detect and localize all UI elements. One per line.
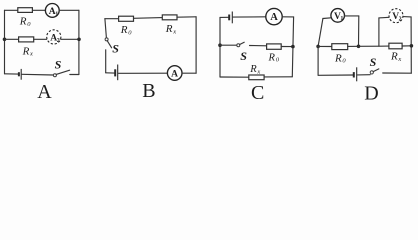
switch S (D) <box>370 71 373 74</box>
wire A top-left <box>5 9 18 11</box>
node C mid-right junction <box>291 45 295 49</box>
svg-text:R: R <box>22 46 30 58</box>
wire A bottom-right <box>70 74 79 76</box>
ammeter A (C) <box>266 8 282 24</box>
resistor R0 (C) <box>267 44 282 49</box>
resistor Rx box (C) <box>249 75 264 80</box>
wire D V2-loop top-left <box>379 16 389 19</box>
svg-text:A: A <box>171 70 178 80</box>
wire D rail-mid <box>348 45 359 47</box>
wire B left vertical lower <box>105 50 107 73</box>
svg-text:R: R <box>390 51 398 63</box>
svg-text:x: x <box>397 56 401 63</box>
resistor R0 (A, top branch) <box>18 8 33 13</box>
node C mid-left junction <box>218 43 222 47</box>
svg-text:R: R <box>334 52 342 64</box>
svg-text:R: R <box>165 23 173 35</box>
node A mid-left junction <box>3 38 7 42</box>
wire C top-right <box>282 16 293 18</box>
svg-text:x: x <box>172 28 176 35</box>
wire C bottom-right <box>264 76 292 78</box>
svg-text:C: C <box>251 82 264 102</box>
wire D rail-left <box>318 45 332 47</box>
wire A bottom-left <box>5 73 18 75</box>
wire C top-mid <box>233 16 266 18</box>
svg-text:S: S <box>240 49 247 63</box>
wire C top-left <box>220 16 229 18</box>
ammeter A2 (dashed) <box>47 30 61 44</box>
wire B top-mid <box>134 17 163 20</box>
wire D V2-loop top-right <box>403 16 411 18</box>
node D rail-left junction <box>316 45 320 49</box>
svg-text:R: R <box>249 64 257 75</box>
wire A top-right <box>59 9 79 11</box>
wire A mid-right <box>61 38 79 40</box>
svg-text:S: S <box>112 42 119 56</box>
wire A mid-mid <box>34 38 48 40</box>
wire C mid-right <box>281 46 293 48</box>
ammeter A1 <box>45 3 59 17</box>
svg-text:S: S <box>55 58 62 72</box>
svg-text:R: R <box>19 16 27 28</box>
wire D bottom-left <box>318 74 353 76</box>
wire A bottom-mid <box>22 73 53 76</box>
battery (A) <box>18 72 20 76</box>
svg-text:D: D <box>364 82 378 102</box>
wire B right vertical <box>195 17 197 73</box>
voltmeter V1 <box>331 9 345 23</box>
svg-text:A: A <box>37 81 52 102</box>
resistor R0 (D) <box>332 44 348 50</box>
node D rail-mid junction <box>357 45 361 49</box>
battery (D) <box>353 72 355 77</box>
wire D V1 right riser <box>358 16 360 46</box>
node A mid-right junction <box>77 38 81 42</box>
svg-text:R: R <box>268 52 276 63</box>
wire C mid-dash <box>250 45 267 47</box>
ammeter A (B) <box>167 66 182 81</box>
svg-text:R: R <box>120 24 128 36</box>
wire D rail-mid2 <box>359 45 389 47</box>
wire D left vertical lower <box>317 46 319 75</box>
resistor R0 (B) <box>119 16 134 21</box>
wire B left vertical upper <box>105 19 107 38</box>
wire A left vertical <box>4 10 6 74</box>
switch S (C) <box>237 44 240 47</box>
wire B top-right <box>177 16 196 18</box>
wire B top-left <box>105 18 119 20</box>
svg-text:A: A <box>270 12 278 23</box>
svg-text:1: 1 <box>340 16 343 22</box>
switch S (B) <box>105 38 108 41</box>
wire C mid-left <box>220 44 237 46</box>
wire D rail-right <box>402 45 411 47</box>
wire B bottom-mid <box>119 72 168 74</box>
wire D V1-loop top-right <box>344 15 358 17</box>
wire C bottom-left <box>220 76 249 78</box>
svg-text:2: 2 <box>57 38 60 44</box>
wire A right vertical <box>78 10 80 74</box>
resistor Rx (A, middle branch) <box>19 37 34 42</box>
battery (B) <box>114 69 116 76</box>
node D rail-right junction <box>410 44 414 48</box>
resistor Rx (D) <box>389 43 402 49</box>
wire D bottom-right <box>383 72 412 74</box>
resistor Rx (B) <box>162 15 177 20</box>
wire A mid-left <box>5 38 19 40</box>
svg-text:x: x <box>256 68 260 75</box>
svg-text:2: 2 <box>399 17 402 23</box>
wire D V1 left riser <box>318 19 323 47</box>
svg-text:S: S <box>370 55 377 69</box>
wire B bottom-right <box>182 72 196 74</box>
svg-text:1: 1 <box>55 11 58 17</box>
wire D right vertical <box>410 17 412 73</box>
wire C right vertical <box>292 17 293 77</box>
switch S (A) <box>53 74 56 77</box>
wire C left vertical <box>219 17 221 77</box>
wire D V1-loop top-left <box>323 17 331 20</box>
wire D V2 left riser <box>378 18 380 46</box>
battery (C) <box>228 15 230 21</box>
wire B bottom-left <box>106 72 115 74</box>
svg-text:x: x <box>29 51 33 58</box>
voltmeter V2 (dashed) <box>389 9 403 23</box>
wire A top-mid <box>32 9 45 11</box>
svg-text:B: B <box>142 80 155 102</box>
wire D bottom-mid <box>357 74 370 76</box>
